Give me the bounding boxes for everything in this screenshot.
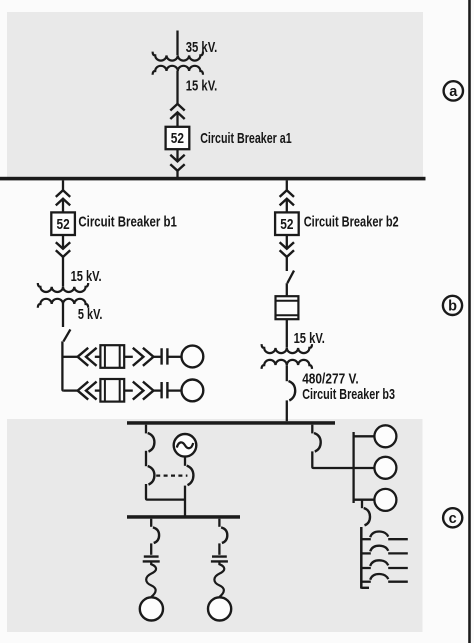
drawout chevrons right (row 2) [133,382,154,400]
transformer T1 primary winding (35 kV) [153,52,203,61]
wire: chevrons to switch [286,257,288,271]
contactor (motor branch 2) [211,557,228,562]
480 V bus [127,421,335,425]
drawout chevrons below breaker b2 [280,242,294,257]
wire: chevrons to fuse row 2 [95,389,101,391]
breaker arc (panelboard main) [364,508,370,525]
wire: drop to panelboard [361,500,363,509]
wire: tie feeder elbow to generator line [146,484,185,500]
transformer T1 secondary winding (15 kV) [153,66,203,75]
transformer T3 primary winding (15 kV) [262,344,312,353]
drawout chevrons below breaker b1 [56,242,70,257]
drawout chevrons above breaker b1 [56,190,70,205]
wire: chevron to breaker a1 box [176,112,178,126]
breaker arc 2 (tie feeder) [148,466,155,485]
transformer T2 secondary winding (5 kV) [38,299,88,308]
panelboard bus [360,527,363,589]
wire: motor row 1 tap [62,356,77,358]
circuit breaker b2 (52 box) [275,212,299,235]
svg-text:52: 52 [280,217,293,233]
motor M3 [140,597,163,620]
wire: T2 secondary down [62,304,64,327]
svg-text:480/277 V.: 480/277 V. [302,371,359,388]
svg-text:Circuit Breaker b2: Circuit Breaker b2 [304,214,399,231]
fuse unit row 1 [100,345,124,368]
circuit breaker b3 (arc symbol) [289,381,296,401]
zone marker (a) [444,81,463,100]
wire: chevrons to contactor row 2 [154,389,162,391]
panel branch 1 [361,532,408,540]
background band (a) top gray panel [7,12,423,177]
svg-text:15 kV.: 15 kV. [294,330,325,347]
svg-text:35 kV.: 35 kV. [186,39,218,56]
svg-text:15 kV.: 15 kV. [186,77,218,94]
svg-text:Circuit Breaker b3: Circuit Breaker b3 [302,386,395,403]
drawout chevrons above breaker a1 [170,104,184,119]
right page border [468,0,471,643]
main 15 kV bus [0,177,426,181]
panel branch 2 [361,546,408,554]
svg-text:Circuit Breaker b1: Circuit Breaker b1 [78,214,176,231]
background band (c) bottom gray panel [7,419,423,632]
drawout chevrons left (row 2) [78,382,97,400]
wire: fuse to right chevrons row 2 [124,389,133,391]
load L1 [374,425,396,447]
motor M4 [208,597,231,620]
contactor (motor branch 1) [143,557,160,562]
wire: incoming 35 kV feeder [176,31,178,56]
wire: chevron to breaker b2 box [286,199,288,213]
generator breaker arc [187,466,194,486]
svg-text:52: 52 [171,131,184,147]
panel branch 3 [361,560,408,568]
generator G [174,434,197,457]
wire: chevrons to contactor row 1 [154,356,162,358]
interlock dashed tie [156,474,187,476]
network protector / fuse box on b2 feeder [276,296,299,319]
wire: breaker a1 box to lower chevrons [176,149,178,161]
wire: emergency bus to motor branch 2 [218,519,220,527]
wire: breaker to contactor (motor branch 1) [150,543,152,554]
wire: fuse to right chevrons row 1 [124,356,133,358]
wire: T1 secondary to breaker a1 [176,71,178,104]
wire: T3 secondary to breaker b3 [286,365,288,381]
disconnect switch blade (b2 feeder) [287,271,294,284]
breaker arc (motor branch 1) [153,527,159,543]
stub to load 3 [354,499,375,501]
wire: between tie feeder breakers [145,451,147,466]
svg-text:c: c [449,511,457,527]
svg-text:52: 52 [57,217,70,233]
wire: generator breaker to emergency bus [184,486,186,516]
contactor contacts row 2 [162,382,168,398]
svg-text:Circuit Breaker a1: Circuit Breaker a1 [200,130,292,147]
wire: breaker to contactor (motor branch 2) [218,543,220,554]
wire: switch to network protector [286,283,288,296]
drawout chevrons left (row 1) [78,348,97,366]
wire: motor row 2 tap [64,389,78,391]
wire: contactor to motor row 1 [167,356,181,358]
cable squiggle (motor branch 2) [214,562,224,597]
circuit breaker a1 (52 box) [166,127,190,149]
wire: breaker b2 box to lower chevrons [286,235,288,249]
drawout chevrons below breaker a1 [170,155,184,171]
panel bottom stub [361,587,369,589]
svg-text:b: b [448,299,457,315]
wire: 480 V bus to lighting feeder breaker [311,425,313,434]
emergency bus [127,515,240,519]
transformer T2 primary winding (15 kV) [38,283,88,292]
wire: generator to its breaker [184,457,186,466]
drawout chevrons above breaker b2 [280,190,294,205]
wire: chevrons to transformer T2 [62,257,64,287]
wire: breaker b3 to 480 V bus [286,400,288,421]
wire: chevron to breaker b1 box [62,199,64,213]
motor M1 [182,346,204,368]
wire: emergency bus to motor branch 1 [150,519,152,527]
zone marker (b) [443,296,462,315]
wire: contactor to motor row 2 [167,389,181,391]
fuse unit row 2 [100,379,124,402]
wire: bus to breaker b1 chevrons [62,180,64,190]
zone marker (c) [443,508,462,527]
breaker arc (lighting feeder) [314,433,321,452]
wire: protector to transformer T3 [286,319,288,348]
svg-text:15 kV.: 15 kV. [71,268,102,285]
transformer T3 secondary winding (480/277 V) [262,360,312,369]
drawout chevrons right (row 1) [133,348,154,366]
disconnect switch blade (b1 feeder) [63,329,70,341]
breaker arc (motor branch 2) [221,527,227,543]
wire: 480 V bus to breaker (tie feeder) [145,425,147,434]
wire: breaker b1 box to lower chevrons [62,235,64,249]
wire: bus to breaker b2 chevrons [286,180,288,190]
riser for load circles [352,432,354,503]
contactor contacts row 1 [162,348,168,364]
wire: lighting feeder elbow to riser [312,451,374,468]
wire: chevron to main bus [176,171,178,177]
panel branch 4 [361,574,408,582]
motor M2 [182,380,204,402]
svg-text:a: a [449,84,458,100]
breaker arc 1 (tie feeder) [148,433,155,452]
circuit breaker b1 (52 box) [51,212,75,235]
stub to load 1 [354,435,375,437]
wire: switch to motor rows riser [62,341,63,390]
load L3 [374,489,396,511]
svg-text:5 kV.: 5 kV. [78,306,103,323]
wire: chevrons to fuse row 1 [95,356,101,358]
load L2 [374,457,396,479]
cable squiggle (motor branch 1) [146,562,156,597]
